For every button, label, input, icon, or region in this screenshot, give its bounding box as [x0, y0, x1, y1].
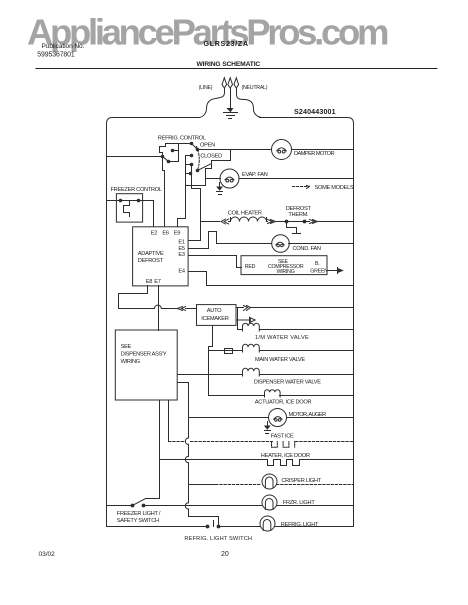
- svg-text:DEFROST: DEFROST: [286, 206, 312, 212]
- power plug ground prong and ground symbol: [230, 89, 232, 109]
- svg-text:REFRIG. LIGHT: REFRIG. LIGHT: [281, 522, 319, 528]
- power plug line prong: [199, 89, 225, 118]
- svg-text:WIRING SCHEMATIC: WIRING SCHEMATIC: [197, 61, 261, 68]
- evap fan motor M2: [220, 169, 239, 188]
- switch blade upper to OPEN contact: [192, 144, 198, 150]
- wire: jog top to switch common: [166, 143, 192, 145]
- refrig light switch: [206, 525, 210, 529]
- freezer control box: [116, 194, 142, 222]
- power plug neutral prong: [237, 89, 263, 118]
- wire: left bus down from dispenser area to freezer switch tip: [146, 401, 160, 499]
- svg-text:REFRIG. LIGHT SWITCH: REFRIG. LIGHT SWITCH: [184, 536, 252, 542]
- frzr light bulb L2: [262, 495, 277, 510]
- main valve fuse: [221, 349, 236, 354]
- adaptive defrost control box: [133, 227, 189, 286]
- svg-text:Publication No.: Publication No.: [42, 43, 85, 50]
- freezer light / safety switch: [107, 505, 133, 507]
- crisper light feed from bus: [189, 484, 216, 486]
- wire: icemaker to right bus with chevron: [237, 307, 354, 309]
- svg-text:RED: RED: [245, 264, 256, 270]
- bus hop over freezer light line: [185, 503, 188, 509]
- svg-text:20: 20: [221, 551, 229, 558]
- rotary wiper dashed arc: [197, 147, 200, 171]
- blade from arc bottom to step: [198, 164, 212, 171]
- svg-text:E6: E6: [162, 230, 168, 236]
- svg-text:CRISPER LIGHT: CRISPER LIGHT: [281, 478, 321, 484]
- svg-text:FAST ICE: FAST ICE: [271, 434, 294, 440]
- wire: cond fan to right bus: [289, 243, 354, 245]
- refrig light line (bottom border) with switch: [107, 526, 354, 528]
- wire: 1/M valve tap from icemaker line: [238, 308, 243, 330]
- crisper light dashed line: [216, 484, 354, 486]
- svg-text:ADAPTIVE: ADAPTIVE: [138, 251, 164, 257]
- actuator ice door solenoid: [265, 390, 281, 397]
- svg-text:E2: E2: [151, 230, 157, 236]
- wire through freezer control: [107, 200, 143, 202]
- wire: 1/M valve to right bus: [260, 329, 354, 331]
- svg-text:E1: E1: [178, 240, 184, 246]
- svg-text:GREEN: GREEN: [310, 268, 328, 274]
- compressor wiring box: [241, 256, 327, 275]
- auto icemaker box: [197, 305, 237, 326]
- svg-text:B.: B.: [315, 261, 319, 267]
- arc bottom contact dot: [196, 169, 200, 173]
- svg-text:CLOSED: CLOSED: [200, 153, 222, 159]
- svg-text:DEFROST: DEFROST: [138, 258, 164, 264]
- ground below evap fan: [219, 183, 221, 188]
- wire: actuator to right bus: [280, 395, 354, 397]
- svg-text:ICEMAKER: ICEMAKER: [201, 316, 228, 322]
- coil heater line with chevrons: [201, 221, 287, 223]
- some models note: [293, 186, 309, 188]
- title rule line: [36, 68, 438, 70]
- svg-text:DISPENSER WATER VALVE: DISPENSER WATER VALVE: [254, 380, 321, 386]
- heater ice door line: [160, 459, 354, 461]
- svg-text:(LINE): (LINE): [199, 85, 213, 91]
- bus hop over fast ice line: [185, 438, 188, 444]
- svg-text:1/M WATER VALVE: 1/M WATER VALVE: [255, 335, 309, 341]
- wire: damper motor to right bus: [292, 149, 354, 151]
- switch blade lower: [163, 157, 169, 162]
- wire: icemaker bottom to valve/actuator bus: [209, 326, 213, 396]
- wire: defrost feed down from contact: [192, 165, 201, 222]
- contact dot low stub: [186, 173, 191, 175]
- wire: branch to main valve fuse: [209, 350, 221, 352]
- wire: OPEN contact to damper motor: [198, 149, 272, 151]
- wire: actuator feed: [209, 395, 265, 397]
- svg-text:MOTOR, AUGER: MOTOR, AUGER: [289, 412, 327, 418]
- damper motor M1: [272, 140, 292, 160]
- main schematic border box: [107, 118, 354, 527]
- svg-text:E4: E4: [178, 268, 184, 274]
- icemaker feed line with hop over E7 wire and chevron: [119, 305, 197, 308]
- refrig control thermal jog: [160, 144, 166, 157]
- svg-text:(NEUTRAL): (NEUTRAL): [242, 85, 268, 91]
- svg-text:FRZR. LIGHT: FRZR. LIGHT: [283, 500, 316, 506]
- green ground wire arrow: [328, 268, 338, 274]
- defrost thermostat: [285, 220, 289, 224]
- bus hop over heater line: [185, 456, 188, 462]
- svg-text:SAFETY SWITCH: SAFETY SWITCH: [117, 518, 159, 524]
- wire: damper line junction down to evap fan feed: [186, 150, 231, 186]
- wire: defrost therm to right bus with chevron: [305, 221, 354, 223]
- ground below auger motor: [267, 422, 269, 427]
- svg-text:FREEZER CONTROL: FREEZER CONTROL: [111, 187, 162, 193]
- crisper light bulb L1: [262, 474, 277, 489]
- svg-text:SEE: SEE: [121, 344, 132, 350]
- contact dot mid stub: [186, 164, 192, 166]
- wire: lights bus to refrig switch: [189, 517, 219, 527]
- wire: E3 to compressor RED: [189, 256, 242, 268]
- wire: E4 to right bus: [189, 272, 354, 286]
- svg-text:E5: E5: [178, 246, 184, 252]
- svg-text:COND. FAN: COND. FAN: [293, 246, 321, 252]
- svg-text:WIRING: WIRING: [277, 269, 295, 275]
- svg-text:REFRIG. CONTROL: REFRIG. CONTROL: [158, 136, 206, 142]
- cond fan motor M3: [272, 235, 290, 253]
- wire: evap fan feed: [206, 178, 221, 180]
- wire: vertical link at 178.8: [178, 144, 180, 162]
- wire: E5 to cond fan: [189, 232, 272, 249]
- auger motor M4: [269, 409, 287, 427]
- wire: E9 feed bus down from CLOSED contacts: [178, 156, 186, 227]
- freezer control thermostat squiggle: [124, 201, 130, 217]
- see dispenser assy wiring box: [115, 330, 177, 400]
- main water valve solenoid: [243, 344, 260, 352]
- svg-text:MAIN WATER VALVE: MAIN WATER VALVE: [255, 357, 305, 363]
- fast ice heater element dashed: [272, 442, 295, 448]
- refrig light bulb L3: [260, 516, 275, 531]
- 1/M water valve solenoid: [243, 323, 260, 331]
- dispenser water valve feed from dispenser box: [178, 374, 243, 376]
- svg-text:EVAP. FAN: EVAP. FAN: [242, 172, 268, 178]
- svg-text:AUTO: AUTO: [207, 308, 222, 314]
- svg-text:S240443001: S240443001: [294, 108, 336, 116]
- icemaker connector stub: [237, 317, 250, 323]
- svg-text:OPEN: OPEN: [200, 143, 215, 149]
- frzr light line: [144, 505, 354, 507]
- wire: auger motor to right bus: [287, 417, 354, 419]
- svg-text:DAMPER MOTOR: DAMPER MOTOR: [294, 151, 334, 157]
- svg-text:E8: E8: [146, 279, 152, 285]
- wire: auger motor feed: [189, 417, 269, 419]
- dispenser water valve solenoid: [243, 368, 260, 376]
- svg-text:WIRING: WIRING: [121, 359, 140, 365]
- wire: evap fan to right bus: [240, 178, 354, 180]
- heater ice door element: [268, 460, 300, 466]
- wire: E1 to coil heater line: [189, 222, 201, 241]
- wire: left bus to refrig control: [107, 156, 163, 158]
- svg-text:GLRS23/ZA: GLRS23/ZA: [204, 41, 249, 48]
- wire: main valve to right bus: [260, 350, 354, 352]
- svg-text:E3: E3: [178, 252, 184, 258]
- svg-text:DISPENSER ASS'Y: DISPENSER ASS'Y: [121, 351, 167, 357]
- svg-text:HEATER, ICE DOOR: HEATER, ICE DOOR: [261, 453, 310, 459]
- wire: dispenser box to lights bus (down right side): [178, 383, 189, 517]
- wire: dispenser valve to right bus: [260, 374, 354, 376]
- wire: blade to vertical: [169, 161, 179, 163]
- fast ice dashed line: [168, 401, 170, 442]
- wire: E8 down to icemaker feed line: [119, 286, 148, 309]
- coil heater element: [231, 217, 267, 222]
- svg-text:03/02: 03/02: [39, 551, 56, 558]
- svg-text:E7: E7: [154, 279, 160, 285]
- svg-text:SOME MODELS: SOME MODELS: [315, 185, 354, 191]
- wire: E6 feed from refrig control: [163, 157, 165, 227]
- svg-text:5995367801: 5995367801: [37, 52, 75, 59]
- svg-text:ACTUATOR, ICE DOOR: ACTUATOR, ICE DOOR: [255, 400, 312, 406]
- wire: E7 down to dispenser box: [158, 286, 160, 331]
- svg-text:THERM.: THERM.: [288, 212, 309, 218]
- svg-text:COIL HEATER: COIL HEATER: [228, 211, 262, 217]
- svg-text:FREEZER LIGHT /: FREEZER LIGHT /: [117, 511, 161, 517]
- node: contact stub: [173, 150, 179, 152]
- wire: freezer control to E2: [143, 201, 154, 227]
- CLOSED contact dot and stub: [186, 155, 192, 157]
- svg-text:E9: E9: [174, 230, 180, 236]
